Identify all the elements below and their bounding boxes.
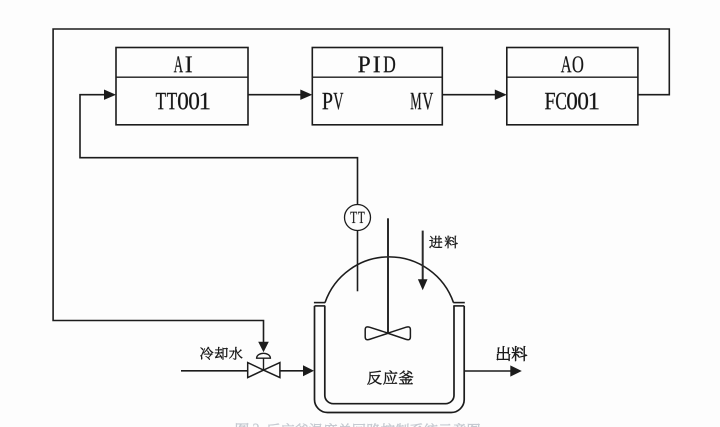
agitator propeller left blade (365, 327, 388, 340)
wire PID MV to AO (442, 94, 495, 96)
reactor dome (325, 257, 454, 303)
feedback wire AO output to valve (53, 29, 669, 342)
arrowhead into AI (104, 90, 116, 100)
arrowhead down to valve actuator (258, 342, 269, 353)
label AI (174, 56, 183, 72)
reactor wall top cap right (453, 305, 464, 307)
feed line (422, 231, 424, 280)
reactor flange lip right (453, 302, 465, 304)
function block AI (116, 48, 248, 125)
outlet arrowhead (510, 365, 522, 376)
label TT (350, 212, 357, 223)
label TT001 (156, 93, 166, 109)
wire TT to AI input (80, 95, 358, 205)
arrowhead into AO (495, 90, 507, 100)
reactor wall top cap left (315, 305, 326, 307)
valve body right triangle (264, 363, 280, 378)
feed arrowhead (418, 279, 428, 290)
reactor inner wall (325, 306, 454, 404)
arrowhead into reactor (303, 365, 314, 376)
label 冷却水 (200, 347, 213, 360)
label FC001 (545, 93, 555, 109)
label 反应釜 (367, 371, 381, 385)
pin label MV (411, 93, 422, 109)
thermowell line into vessel (357, 231, 359, 292)
label AO (561, 56, 572, 72)
label 出料 (497, 346, 510, 361)
pipe valve to reactor (280, 370, 303, 372)
valve actuator dome (257, 353, 271, 358)
valve body left triangle (248, 363, 264, 378)
function block PID (312, 48, 442, 125)
wire AI to PID (248, 94, 301, 96)
instrument TT circle (345, 205, 371, 231)
label 进料 (429, 236, 442, 248)
agitator shaft (387, 218, 389, 333)
outlet line (464, 370, 510, 372)
label PID (358, 56, 369, 72)
valve stem (263, 358, 265, 370)
agitator propeller right blade (388, 327, 411, 340)
reactor flange lip left (314, 302, 325, 304)
cooling water pipe left (181, 370, 248, 372)
pin label PV (322, 93, 332, 109)
figure caption cropped at bottom (236, 423, 480, 427)
arrowhead into PID (300, 90, 312, 100)
function block AO (507, 48, 638, 125)
reactor outer wall (315, 306, 465, 413)
